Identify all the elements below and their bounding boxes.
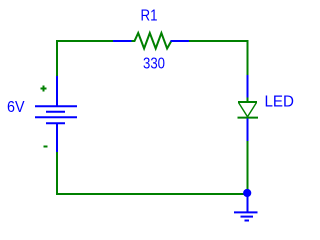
wire bottom (battery - to node): [57, 152, 247, 194]
plate long: [35, 116, 77, 118]
pin anode: [247, 75, 249, 98]
plate short bottom: [46, 122, 65, 124]
wire top-right (resistor to LED anode): [189, 41, 248, 75]
ground bar 2: [241, 216, 254, 218]
resistor R1: [113, 33, 189, 49]
wire right-lower (LED cathode to node): [247, 141, 249, 193]
cathode bar: [238, 117, 259, 119]
pin + lead: [56, 76, 58, 106]
pin left: [113, 40, 132, 42]
zigzag body: [132, 33, 172, 49]
ground bar 3: [245, 220, 250, 222]
plate long top: [35, 105, 77, 107]
triangle top edge: [238, 101, 257, 103]
svg-text:330: 330: [143, 56, 165, 73]
wire top-left (battery + to resistor): [57, 41, 113, 77]
ground bar 1: [234, 211, 258, 213]
ground lead: [247, 196, 249, 212]
minus sign: [44, 146, 48, 148]
battery V1 6V: [35, 76, 77, 152]
svg-text:6V: 6V: [7, 99, 25, 116]
plus sign: [41, 86, 47, 92]
svg-text:LED: LED: [265, 94, 295, 111]
ground: [234, 196, 258, 221]
anode stub: [247, 98, 249, 102]
pin right: [171, 40, 190, 42]
triangle sides: [239, 103, 257, 117]
pin - lead: [56, 124, 58, 152]
plate short: [46, 111, 65, 113]
svg-text:R1: R1: [141, 8, 158, 25]
node junction dot: [243, 189, 251, 197]
pin cathode: [247, 119, 249, 142]
LED D1: [238, 75, 259, 141]
